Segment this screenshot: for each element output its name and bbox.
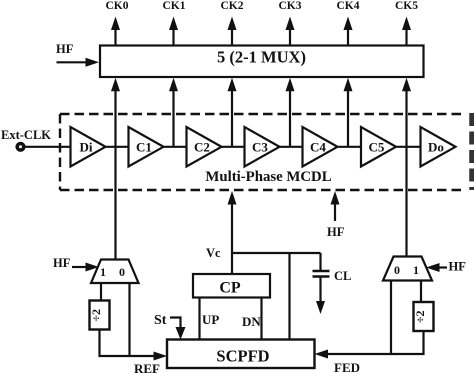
wire HF arrow into left demux (72, 263, 99, 272)
svg-text:CK3: CK3 (279, 0, 302, 12)
svg-text:FED: FED (334, 360, 360, 373)
demux right trapezoid (383, 257, 432, 281)
wire left demux port1 to divider (100, 283, 102, 301)
svg-text:CK1: CK1 (163, 0, 186, 12)
buffer C2 (187, 127, 222, 167)
svg-text:CK4: CK4 (337, 0, 360, 12)
svg-text:HF: HF (56, 42, 74, 56)
node Vc label (206, 246, 221, 260)
wire tap CK3 into mux arrow (286, 78, 295, 147)
svg-text:C3: C3 (252, 139, 268, 154)
svg-text:CK2: CK2 (221, 0, 244, 12)
wire HF arrow into MCDL bottom (331, 191, 340, 221)
svg-text:C4: C4 (310, 139, 326, 154)
wire left divider output to REF (100, 330, 157, 357)
wire C2 to C3 (222, 146, 245, 148)
wire CK0 output arrow (111, 17, 120, 46)
label REF (134, 361, 160, 373)
svg-text:Multi-Phase MCDL: Multi-Phase MCDL (205, 169, 331, 185)
svg-text:HF: HF (327, 225, 345, 239)
node HF left label (53, 256, 71, 270)
demux left trapezoid (91, 260, 139, 284)
svg-text:CK5: CK5 (395, 0, 418, 12)
node CK2 label (221, 0, 244, 12)
label Multi-Phase MCDL (205, 169, 331, 185)
wire CK5 tap down to right demux (405, 147, 407, 257)
divider left /2 block (89, 301, 110, 330)
wire CK4 output arrow (344, 17, 353, 46)
svg-text:HF: HF (449, 260, 467, 274)
block SCPFD (167, 340, 315, 369)
svg-text:SCPFD: SCPFD (216, 347, 269, 366)
svg-text:UP: UP (202, 312, 219, 327)
svg-text:0: 0 (394, 263, 400, 277)
node HF bottom middle label (327, 225, 345, 239)
wire tap CK2 into mux arrow (228, 78, 237, 147)
wire C5 to Do (396, 146, 421, 148)
terminal Ext-CLK circle (17, 144, 24, 151)
buffer Di (71, 127, 106, 167)
mux block 5 (2-1 MUX) (100, 46, 424, 78)
svg-text:C2: C2 (194, 139, 210, 154)
block CP charge pump (193, 274, 270, 298)
wire C3 to C4 (280, 146, 303, 148)
svg-text:St: St (154, 313, 167, 328)
dashed box Multi-Phase MCDL boundary (60, 114, 465, 190)
wire HF arrow into right demux (426, 263, 447, 272)
svg-text:÷2: ÷2 (413, 311, 427, 324)
wire Vc horizontal (232, 252, 321, 254)
wire right demux port1 to divider (420, 281, 422, 303)
wire right divider output to FED (325, 331, 424, 354)
wire FED arrow into SCPFD (315, 350, 329, 359)
wire tap CK4 into mux arrow (344, 78, 353, 147)
svg-text:1: 1 (100, 265, 106, 279)
svg-text:0: 0 (119, 265, 125, 279)
svg-text:C5: C5 (369, 139, 385, 154)
wire DN from CP to SCPFD (260, 298, 262, 340)
buffer C3 (245, 127, 280, 167)
node Ext-CLK label (1, 128, 51, 142)
capacitor CL (313, 253, 330, 314)
wire left demux port0 down to REF (128, 283, 130, 356)
wire St arrow into SCPFD (170, 318, 186, 340)
dashed box right edge thick dashes (469, 113, 474, 190)
wire Vc to SCPFD vertical (288, 253, 290, 340)
svg-text:C1: C1 (136, 139, 152, 154)
label CL (334, 269, 351, 283)
buffer C5 (361, 127, 396, 167)
node CK3 label (279, 0, 302, 12)
svg-text:Vc: Vc (206, 246, 221, 260)
svg-text:CL: CL (334, 269, 351, 283)
wire CK3 output arrow (286, 17, 295, 46)
node HF right label (449, 260, 467, 274)
svg-text:5 (2-1 MUX): 5 (2-1 MUX) (217, 48, 306, 67)
wire Ext-CLK to Di (24, 146, 71, 148)
wire UP from CP to SCPFD (198, 298, 200, 340)
wire CK2 output arrow (228, 17, 237, 46)
wire Di to C1 (106, 146, 129, 148)
wire HF input arrow to mux (57, 58, 100, 67)
wire CK0 tap down to left demux (114, 147, 116, 260)
node CK0 label (106, 0, 129, 12)
node CK5 label (395, 0, 418, 12)
svg-text:1: 1 (413, 263, 419, 277)
svg-text:÷2: ÷2 (89, 309, 103, 322)
label FED (334, 360, 360, 373)
node HF top label (56, 42, 74, 56)
svg-text:Ext-CLK: Ext-CLK (1, 128, 51, 142)
wire right demux port0 down to FED (390, 281, 392, 355)
wire CK5 output arrow (402, 17, 411, 46)
svg-text:HF: HF (53, 256, 71, 270)
divider right /2 block (413, 302, 434, 331)
svg-text:DN: DN (242, 314, 261, 329)
node St label (154, 313, 167, 328)
buffer Do (421, 127, 456, 167)
wire tap CK1 into mux arrow (169, 78, 178, 147)
wire C1 to C2 (164, 146, 187, 148)
buffer C1 (129, 127, 164, 167)
svg-text:CK0: CK0 (106, 0, 129, 12)
wire C4 to C5 (338, 146, 362, 148)
wire CK1 output arrow (169, 17, 178, 46)
buffer C4 (303, 127, 338, 167)
wire tap CK5 into mux arrow (402, 78, 411, 147)
wire tap CK0 into mux arrow (111, 78, 120, 147)
svg-text:Di: Di (80, 139, 93, 154)
wire Vc control arrow into MCDL (228, 191, 237, 274)
label DN (242, 314, 261, 329)
svg-text:CP: CP (219, 280, 241, 297)
node CK4 label (337, 0, 360, 12)
wire REF arrow into SCPFD (154, 352, 168, 361)
svg-text:REF: REF (134, 361, 160, 373)
node CK1 label (163, 0, 186, 12)
svg-text:Do: Do (428, 139, 444, 154)
label UP (202, 312, 219, 327)
